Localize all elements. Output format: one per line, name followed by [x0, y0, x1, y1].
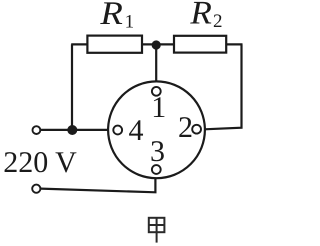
- svg-text:2: 2: [213, 11, 223, 32]
- pin 3 contact: [152, 165, 161, 174]
- pin 2 contact: [192, 125, 201, 134]
- label jia (caption): [149, 218, 165, 243]
- wire right vertical: [205, 44, 242, 129]
- svg-text:3: 3: [150, 135, 165, 168]
- svg-text:R: R: [189, 0, 212, 32]
- resistor R2: [174, 36, 226, 53]
- terminal upper left: [33, 126, 41, 134]
- svg-text:220 V: 220 V: [3, 146, 77, 179]
- svg-text:R: R: [99, 0, 123, 32]
- svg-text:1: 1: [125, 12, 135, 33]
- svg-text:1: 1: [151, 91, 166, 124]
- junction dot on left wire: [67, 125, 77, 135]
- wire top bus: [71, 43, 242, 45]
- lamp socket body U1: [108, 81, 205, 178]
- wire left vertical: [71, 44, 73, 130]
- pin 1 contact: [152, 87, 161, 96]
- junction dot between R1 and R2: [152, 40, 161, 49]
- svg-text:2: 2: [178, 111, 193, 144]
- resistor R1: [87, 36, 142, 53]
- wire middle vertical to socket top: [155, 45, 157, 83]
- wire bottom from terminal to socket: [41, 177, 156, 193]
- terminal lower left: [32, 185, 40, 193]
- wire left horizontal to socket: [36, 129, 109, 131]
- pin 4 contact: [113, 126, 122, 135]
- svg-text:4: 4: [129, 114, 144, 147]
